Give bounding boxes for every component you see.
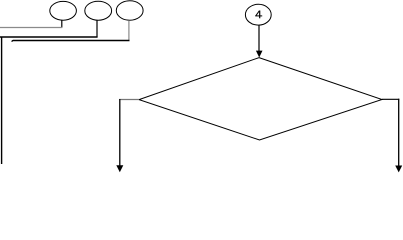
connector ellipse 3: [116, 1, 143, 20]
wire: horizontal from diamond right vertex: [382, 98, 399, 100]
connector ellipse 1 (top-left): [50, 1, 77, 20]
arrowhead right branch: [395, 166, 402, 173]
label 4: [255, 11, 262, 19]
wire: right branch vertical: [398, 99, 400, 166]
connector ellipse 2: [85, 1, 112, 20]
wire: stub below ellipse 1: [61, 20, 63, 27]
arrowhead left branch: [116, 165, 123, 172]
connector circle 4: [245, 4, 271, 25]
wire: gray horizontal line from ellipse 1 to left edge: [0, 27, 62, 29]
wire: horizontal line from ellipse 2 to left edge: [0, 36, 98, 38]
wire: horizontal line 3 with hooked left end: [12, 41, 130, 42]
wire: gray horizontal from diamond left vertex: [119, 99, 139, 101]
arrowhead into diamond top: [256, 51, 263, 58]
wire: gray stub below ellipse 3: [128, 20, 130, 40]
wire: long vertical line at left edge: [1, 37, 3, 165]
wire: vertical from circle 4 to diamond: [258, 25, 260, 51]
wire: stub below ellipse 2: [96, 20, 98, 37]
decision diamond: [139, 58, 382, 140]
wire: left branch vertical: [119, 99, 121, 166]
